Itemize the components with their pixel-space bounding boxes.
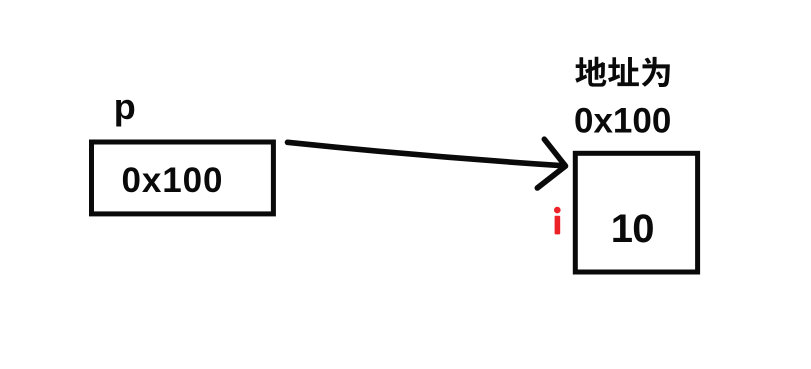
svg-text:p: p [114, 86, 136, 127]
label p (pointer variable name) [114, 86, 136, 127]
label i (variable name, red) [554, 207, 561, 235]
box i (variable at address 0x100) [575, 153, 697, 272]
arrowhead (open) pointing at box i [537, 139, 565, 188]
box p (pointer variable) [92, 142, 274, 214]
svg-text:0x100: 0x100 [574, 102, 671, 141]
value 0x100 stored in p [122, 161, 224, 200]
wire: arrow shaft from p to box at 0x100 [288, 142, 565, 166]
svg-text:10: 10 [611, 207, 654, 251]
value 10 stored in i [611, 207, 654, 251]
label 地址为 (address is) [575, 57, 670, 87]
label 0x100 (address value above box) [574, 102, 671, 141]
svg-text:0x100: 0x100 [122, 161, 224, 200]
